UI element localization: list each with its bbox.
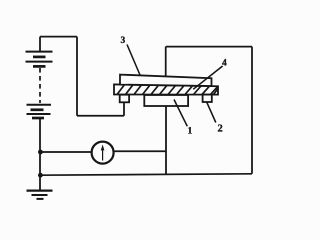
wire battery to node A xyxy=(39,118,41,152)
wire node A to node B xyxy=(39,152,41,175)
node A (junction dot) xyxy=(38,150,43,155)
battery B1 xyxy=(26,37,53,118)
svg-text:3: 3 xyxy=(121,36,126,46)
leader line for label 3 xyxy=(127,45,140,76)
bottom electrode block 1 xyxy=(144,95,188,106)
sample bar 4 (hatched) xyxy=(114,84,218,94)
contact block 2 xyxy=(203,95,212,102)
wire node A to galvanometer xyxy=(40,151,91,153)
leader line for label 2 xyxy=(207,102,216,122)
wire galvanometer to box xyxy=(114,150,166,152)
leader line for label 1 xyxy=(174,100,187,127)
svg-text:4: 4 xyxy=(222,58,227,68)
leader line for label 4 xyxy=(193,66,222,89)
bottom wire node B to box corner xyxy=(40,174,252,175)
top electrode plate 3 xyxy=(120,75,212,86)
svg-text:1: 1 xyxy=(188,126,193,136)
box (chamber enclosure) xyxy=(166,47,252,175)
galvanometer G xyxy=(92,142,114,164)
svg-text:2: 2 xyxy=(218,123,223,134)
wire from battery top to node over sample xyxy=(40,37,124,116)
ground xyxy=(27,175,53,199)
left support block xyxy=(120,95,129,103)
node B (junction dot) xyxy=(38,173,43,178)
